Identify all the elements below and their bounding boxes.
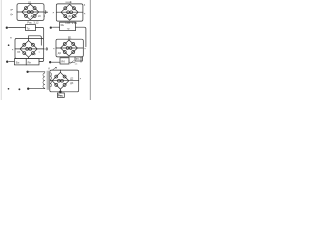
wire: bridge a center diagonal [17,11,44,13]
bridge circuit c: outer loop [15,38,44,58]
svg-text:8X: 8X [17,51,20,54]
diode D1 circle top-left [25,7,28,10]
page right edge [89,0,91,100]
wire: circuit c top feed [8,26,25,28]
diode circle d2 [72,43,75,46]
meter 2 in bridge b center [70,11,73,14]
margin speck left bottom [8,88,9,89]
resistor box R3, circuit d [60,22,76,30]
meter 2 in bridge e center [61,79,64,82]
wire: circuit c top feed right [36,27,44,38]
diode circle b3 [64,15,67,18]
svg-text:a•: a• [10,8,12,11]
wire: bridge c center [15,48,44,50]
output arrow, circuit c [44,48,47,49]
svg-text:Rб: Rб [61,60,65,64]
stub: bridge c bottom vertex to loop [28,57,30,58]
svg-text:Д1: Д1 [28,0,32,4]
output bar, circuit a [45,11,47,14]
stub: bridge e top vertex to loop [59,70,61,72]
wire: circuit d top feed [52,26,59,28]
svg-text:×: × [84,11,86,15]
bridge circuit a: diamond [22,4,39,19]
diode circle c1 [23,43,26,46]
meter in bridge c center [26,48,29,51]
meter in bridge e center [58,79,61,82]
meter 2 in bridge a center [31,11,34,14]
diode circle c2 [31,43,34,46]
bridge circuit a: outer loop [17,4,44,21]
wire: circuit d top right down [76,27,86,47]
connector box, circuit e bottom [57,93,64,97]
margin speck left middle [8,45,9,46]
diode circle e3 [55,83,58,86]
transformer box Tp, circuit c [26,25,36,31]
svg-text:Ем: Ем [16,60,20,64]
wire: circuit d bottom feed [52,61,60,63]
input terminal dot, circuit d [50,27,52,29]
svg-text:×: × [84,47,86,51]
transformer T1 core [47,71,48,90]
wire: bridge b center [56,11,83,13]
svg-text:Рис. 3.12: Рис. 3.12 [27,21,39,25]
svg-text:×: × [53,47,55,51]
bridge circuit c: diamond [20,41,37,58]
diode D4 circle bottom-right [33,14,36,17]
meter in bridge d center [66,47,69,50]
svg-text:Рис: Рис [58,94,64,98]
label box under bridge c [14,59,39,65]
bridge circuit d: outer loop [56,39,83,57]
bypass stub above bridge d [68,37,70,41]
svg-text:Rн: Rн [28,60,32,64]
arrow above circuit b [66,2,72,3]
meter in bridge a center [27,11,30,14]
svg-text:Rн: Rн [61,23,65,27]
svg-text:×: × [53,11,55,15]
diode D3 circle bottom-left [25,14,28,17]
input terminal dot, circuit c bottom [6,61,8,63]
diode symbol, circuit d bottom [69,61,75,64]
svg-text:б•: б• [10,13,13,17]
label box divider [25,59,27,65]
bridge circuit b: outer loop [56,4,83,21]
meter 2 in bridge d center [69,47,72,50]
bridge circuit d: diamond [61,40,78,56]
bridge circuit e: outer loop [50,70,79,92]
wire: circuit e top feed [28,71,45,73]
transformer T1 secondary winding [50,73,52,87]
terminal speck, circuit e bottom left [19,89,20,90]
diode circle e1 [55,75,58,78]
input terminal dot, circuit c [6,27,8,29]
meter in bridge b center [67,11,70,14]
resistor box R4, circuit d bottom [60,58,69,64]
bridge circuit e: diamond [52,72,69,89]
bypass wire from bridge c top vertex [29,36,42,46]
diode circle d3 [63,51,66,54]
diode circle d1 [63,43,66,46]
diode circle c3 [23,52,26,55]
wire: circuit c bottom right [39,59,44,62]
bridge circuit b: diamond [61,4,78,20]
diode circle b1 [64,7,67,10]
wire: bridge e center [50,80,79,82]
wire: circuit d bottom to loop [80,57,82,62]
diode circle b4 [72,15,75,18]
wire: circuit e bottom feed [28,88,45,90]
transformer T1 primary winding [43,72,45,89]
diode circle c4 [31,52,34,55]
svg-text:×: × [12,47,14,51]
junction dot, circuit e output [60,91,62,93]
page left edge [0,0,2,100]
wire: bridge d center [56,47,83,49]
diode circle e2 [63,75,66,78]
arrow above circuit e [53,67,57,70]
svg-text:щ: щ [75,15,77,18]
input terminal dot, circuit d bottom [49,61,51,63]
diode circle e4 [63,83,66,86]
wire: circuit c bottom feed [9,61,15,63]
meter 2 in bridge c center [29,48,32,51]
wire: circuit e output stub [59,92,61,93]
diode circle d4 [72,51,75,54]
input junction dot, circuit e bottom [27,88,29,90]
stub: bridge e bottom vertex to loop [59,89,61,92]
output arrow, circuit a [44,12,47,13]
input junction dot, circuit e top [27,71,29,73]
output bar, circuit c [46,47,48,50]
diode circle b2 [72,7,75,10]
diode D2 circle top-right [33,7,36,10]
svg-text:Тр: Тр [27,26,30,30]
resistor box R5, circuit d bottom right [75,57,82,61]
